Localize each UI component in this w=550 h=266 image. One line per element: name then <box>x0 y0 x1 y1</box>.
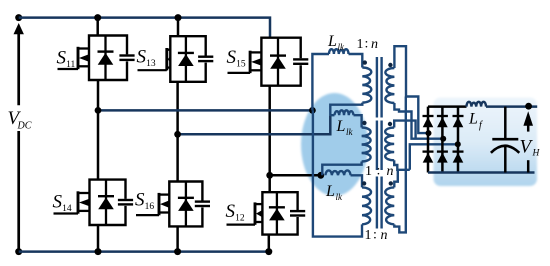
wire: leg C bottom (S12 to rail) <box>268 235 271 252</box>
transformer T3 secondary winding <box>385 187 394 224</box>
svg-text:1: 1 <box>357 37 364 52</box>
label 1:n for transformer T2 <box>365 163 394 179</box>
wire: leg A bottom (S14 to rail) <box>97 225 100 252</box>
wire: bridge top rail <box>428 105 467 108</box>
switch S15 <box>227 38 309 86</box>
diode D2 (upper, leg 2) <box>437 116 448 127</box>
node: T1 secondary polarity dot <box>388 63 392 67</box>
wire: delta corner 1 jog to bridge leg 1 <box>406 97 429 134</box>
inductor Lf (output filter) <box>467 102 487 107</box>
wire: leg B bottom (S16 to rail) <box>176 226 179 251</box>
svg-text:1: 1 <box>365 228 372 243</box>
label Llk3 <box>325 183 343 202</box>
svg-text:14: 14 <box>62 204 72 214</box>
switch S12 <box>226 192 306 234</box>
svg-text::: : <box>373 228 377 243</box>
node: phase A dot at leg <box>95 107 102 114</box>
label 1:n for transformer T3 <box>365 228 388 244</box>
svg-text:n: n <box>387 164 394 179</box>
svg-text:12: 12 <box>235 214 245 224</box>
wire: phase C output <box>270 174 321 177</box>
diode D1 (upper, leg 1) <box>423 116 434 127</box>
wire: leg B middle (S13 to S16) <box>176 82 179 182</box>
node: T3 primary polarity dot <box>362 181 366 185</box>
transformer T1 core <box>377 57 382 118</box>
wire: leg C top (rail corner to S15) <box>269 18 271 38</box>
wire: delta corner 3 to bridge leg 3 <box>410 144 458 170</box>
capacitor C output (polarized) <box>491 107 519 173</box>
label Llk1 <box>327 33 345 52</box>
node: bottom-left junction dot <box>15 248 22 255</box>
node: bridge leg 1 midpoint dot <box>426 130 432 136</box>
transformer T2 primary winding <box>362 128 371 162</box>
svg-text:L: L <box>336 118 346 135</box>
diode D3 (upper, leg 3) <box>453 116 464 127</box>
node: T2 primary polarity dot <box>362 121 366 125</box>
wire: primary return bus (phase A down to T3 primary bottom) <box>313 110 362 236</box>
transformer T2 core <box>377 121 382 171</box>
wire: phase B output <box>178 115 331 134</box>
wire: leg C middle (S15 to S12) <box>268 86 271 193</box>
node: bridge leg 2 midpoint dot <box>440 136 446 142</box>
diode D6 (lower, leg 3) <box>453 152 464 163</box>
node: bottom rail dot below S16 <box>174 248 181 255</box>
highlight rounded rectangle over output rectifier stage <box>434 98 538 187</box>
wire: bridge bottom output rail <box>428 171 535 174</box>
node: rail dot above S11 <box>94 14 101 21</box>
transformer T3 core <box>377 177 382 229</box>
wire: output top rail after Lf <box>486 105 537 108</box>
svg-text::: : <box>377 163 381 178</box>
svg-text:DC: DC <box>17 121 32 132</box>
node: T3 secondary polarity dot <box>389 181 393 185</box>
svg-text:S: S <box>135 190 145 211</box>
node: bridge leg 3 midpoint dot <box>455 141 461 147</box>
wire: Llk3 to T3 primary top <box>351 175 363 187</box>
svg-text:1: 1 <box>365 164 372 179</box>
label VDC <box>8 108 32 132</box>
svg-text:S: S <box>226 201 236 222</box>
inductor Llk2 (leakage, phase B) <box>335 110 354 115</box>
inductor Llk3 (leakage, phase C) <box>326 170 351 175</box>
switch S14 <box>53 180 134 225</box>
svg-text:S: S <box>53 192 63 213</box>
svg-text:L: L <box>325 183 335 200</box>
wire: bridge leg 2 <box>441 107 444 173</box>
wire: leg A middle (S11 to S14) <box>97 80 100 180</box>
wire: T1 secondary top to delta corner 1 and down-loop <box>394 46 406 96</box>
wire: riser from phase A dot up to Llk1 <box>312 54 329 110</box>
node: rail dot above S13 <box>175 14 182 21</box>
wire: delta loop down to T3 secondary bottom <box>394 97 406 233</box>
node: T1 primary polarity dot <box>363 60 367 64</box>
node: phase C dot at Llk3 <box>317 172 324 179</box>
wire: T1 secondary bottom to delta corner 2 <box>394 103 443 139</box>
svg-text:lk: lk <box>346 127 354 137</box>
label 1:n for transformer T1 <box>357 36 379 52</box>
svg-text:n: n <box>371 37 378 52</box>
transformer T3 primary winding <box>362 187 371 224</box>
transformer T1 primary winding <box>362 68 371 103</box>
svg-text:L: L <box>468 111 478 128</box>
wire: bridge leg 3 <box>457 107 460 173</box>
wire: leg B top (rail to S13) <box>177 18 180 37</box>
diode D5 (lower, leg 2) <box>437 152 448 163</box>
highlight ellipse over middle transformer primaries <box>301 93 368 196</box>
wire: T3 secondary top joins corner 3 <box>394 170 398 188</box>
wire: T2 secondary bottom to delta corner 3 <box>394 160 410 170</box>
wire: Llk1 to T1 primary top <box>349 54 363 68</box>
node: phase A dot at transformer bus <box>309 107 316 114</box>
wire: T2 secondary top joins corner 2 <box>394 121 415 139</box>
switch S11 (mosfet with antiparallel diode and snubber capacitor) <box>57 36 135 81</box>
wire: Llk2 to T2 primary top <box>354 115 362 127</box>
switch S13 <box>137 36 214 82</box>
wire: T1 primary bottom return to phase-B riser <box>330 103 362 116</box>
svg-text:S: S <box>57 48 67 69</box>
transformer T2 secondary winding <box>385 128 394 161</box>
inductor Llk1 (leakage, phase A) <box>329 49 349 54</box>
svg-text:16: 16 <box>145 202 155 212</box>
svg-text:H: H <box>532 149 541 159</box>
node: phase B dot at leg <box>174 131 181 138</box>
svg-text:lk: lk <box>336 192 344 202</box>
wire: top DC rail <box>19 18 270 38</box>
svg-text:L: L <box>327 33 337 50</box>
node: T2 secondary polarity dot <box>388 122 392 126</box>
node: top-left junction dot on Vdc positive rail <box>15 14 22 21</box>
wire: phase A output <box>98 109 312 112</box>
wire: bridge leg 1 <box>427 107 430 173</box>
transformer T1 secondary winding <box>385 68 394 103</box>
wire: Vdc line lower segment <box>17 131 20 252</box>
diode D4 (lower, leg 1) <box>423 152 434 163</box>
node: output positive dot <box>525 103 532 110</box>
svg-text:S: S <box>137 47 147 68</box>
switch S16 <box>135 182 210 227</box>
svg-text:11: 11 <box>66 60 75 70</box>
svg-text:15: 15 <box>236 60 246 70</box>
node: phase C dot at leg <box>266 172 273 179</box>
label VH <box>520 137 541 159</box>
wire: leg A top (rail to S11) <box>96 18 99 36</box>
arrow VH (points up) <box>523 111 533 172</box>
svg-text::: : <box>365 36 369 51</box>
label Lf <box>468 111 483 132</box>
node: bottom rail dot below S12 <box>265 248 272 255</box>
wire: T2 primary bottom to phase C node <box>322 162 361 176</box>
node: bottom rail dot below S14 <box>95 248 102 255</box>
svg-text:S: S <box>227 47 237 68</box>
wire: bottom DC rail <box>19 250 269 253</box>
svg-text:13: 13 <box>146 59 156 69</box>
label Llk2 <box>336 118 354 137</box>
wire: stub to Llk2 <box>330 114 334 116</box>
svg-text:n: n <box>381 228 388 243</box>
source arrow Vdc (points up) <box>14 23 24 105</box>
svg-text:lk: lk <box>338 42 346 52</box>
